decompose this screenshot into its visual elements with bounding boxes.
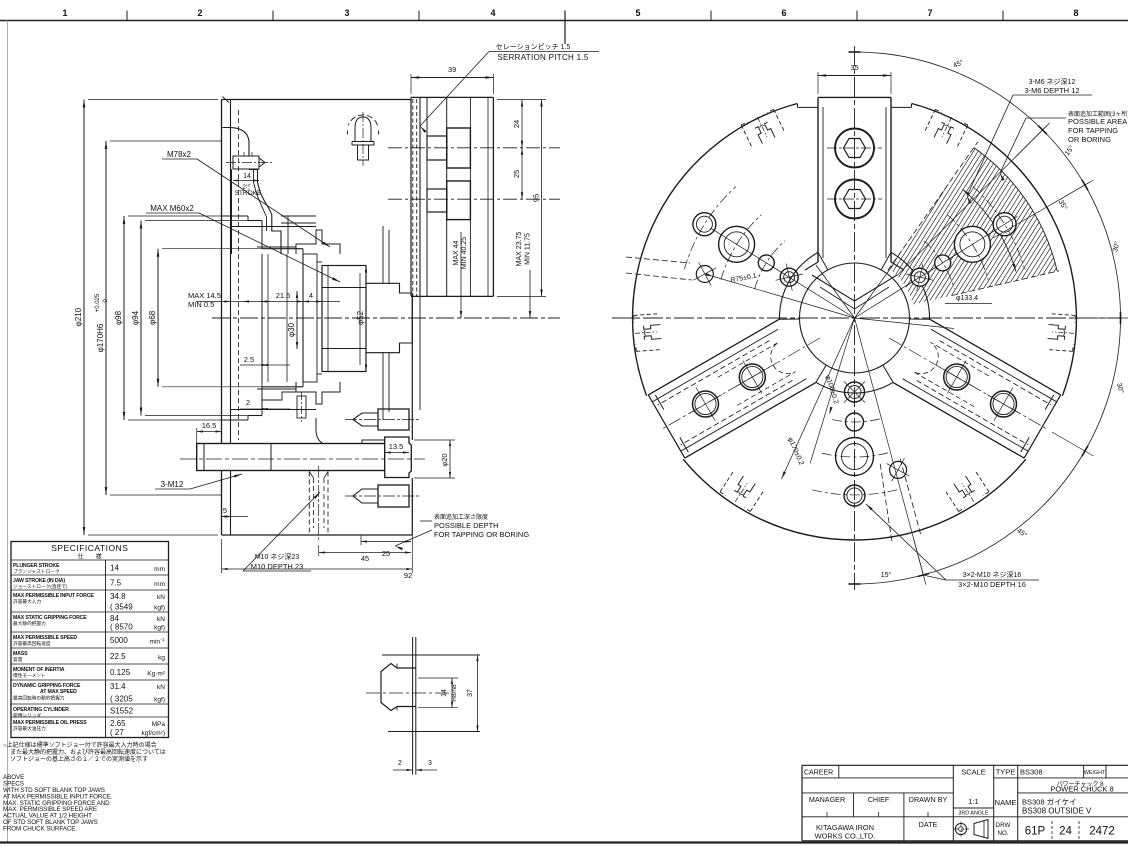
angle dimension arcs (right half): [855, 52, 1043, 130]
svg-text:POWER CHUCK 8: POWER CHUCK 8: [1050, 785, 1113, 794]
svg-text:DRW: DRW: [996, 822, 1011, 829]
svg-text:5: 5: [223, 506, 227, 515]
detail T-nut profile: [381, 664, 416, 711]
svg-text:M78x2: M78x2: [167, 150, 192, 159]
detail view top face line: [382, 654, 480, 656]
svg-text:3-M12: 3-M12: [161, 480, 184, 489]
stop key symbol upper-left rim: [741, 109, 785, 148]
svg-text:SPECIFICATIONS: SPECIFICATIONS: [51, 543, 128, 553]
dimension 25: [521, 148, 523, 199]
dimension 95: [497, 295, 546, 297]
stop key symbol right rim (way end): [1047, 314, 1075, 352]
stop key symbol lower-right rim: [945, 470, 989, 511]
section body: front flange profile: [222, 128, 249, 156]
center bore φ52 cylinder: [322, 266, 366, 372]
svg-text:95: 95: [532, 194, 541, 202]
svg-text:4: 4: [309, 291, 313, 300]
plunger back vertical: [231, 169, 233, 254]
svg-text:MAX 44: MAX 44: [453, 240, 460, 265]
svg-text:OR BORING: OR BORING: [1068, 135, 1111, 144]
mounting bolt 3-M12 (long bolt lower left): [197, 444, 385, 471]
detail view bottom face line: [388, 731, 480, 733]
svg-text:13.5: 13.5: [389, 442, 404, 451]
stop key symbol lower-left rim: [720, 470, 764, 511]
svg-text:S1552: S1552: [110, 707, 134, 716]
body front face verticals: [382, 226, 384, 283]
svg-text:慣性モーメント: 慣性モーメント: [13, 672, 46, 679]
third angle projection symbol: [955, 823, 966, 834]
svg-text:表面追加工深さ限度: 表面追加工深さ限度: [434, 513, 488, 521]
svg-text:AT MAX SPEED: AT MAX SPEED: [40, 689, 77, 695]
svg-text:NO.: NO.: [997, 830, 1008, 837]
svg-text:14: 14: [110, 564, 119, 573]
detail slot vertical lines: [412, 637, 414, 775]
svg-text:7: 7: [927, 8, 932, 18]
svg-text:MANAGER: MANAGER: [809, 795, 845, 804]
svg-text:STROKE: STROKE: [235, 190, 262, 197]
svg-text:φ94: φ94: [131, 310, 140, 325]
hub profile upper steps: [222, 215, 248, 217]
svg-text:BS308: BS308: [1020, 768, 1043, 777]
svg-text:3: 3: [428, 760, 432, 767]
svg-text:61P: 61P: [1025, 826, 1046, 838]
drawing frame top border line: [0, 20, 1128, 22]
svg-text:39: 39: [448, 65, 456, 74]
dimension φ98: [123, 216, 125, 420]
svg-text:MAX M60x2: MAX M60x2: [150, 204, 194, 213]
svg-text:mm: mm: [154, 566, 165, 573]
svg-text:3×2-M10 DEPTH 16: 3×2-M10 DEPTH 16: [958, 580, 1026, 589]
svg-text:24: 24: [1059, 826, 1072, 838]
jaw hex socket bolt upper: [835, 129, 874, 168]
svg-text:31.4: 31.4: [110, 682, 126, 691]
svg-text:φ133.4: φ133.4: [956, 295, 978, 302]
svg-text:3RD ANGLE: 3RD ANGLE: [958, 811, 989, 817]
svg-text:FROM CHUCK SURFACE.: FROM CHUCK SURFACE.: [3, 826, 77, 833]
bottom sheet border line: [0, 841, 1128, 843]
svg-text:POSSIBLE DEPTH: POSSIBLE DEPTH: [434, 521, 499, 530]
svg-text:FOR TAPPING: FOR TAPPING: [1068, 126, 1118, 135]
svg-text:JAW STROKE (IN DIA): JAW STROKE (IN DIA): [13, 578, 65, 584]
svg-text:M10 DEPTH 23: M10 DEPTH 23: [251, 562, 304, 571]
ruler zone numbers: [62, 8, 1078, 18]
dimension 37: [477, 655, 479, 732]
svg-text:2.65: 2.65: [110, 719, 126, 728]
svg-text:MIN 11.75: MIN 11.75: [525, 233, 532, 265]
svg-text:( 3205: ( 3205: [110, 695, 133, 704]
svg-text:3: 3: [344, 8, 349, 18]
svg-text:SCALE: SCALE: [961, 768, 986, 777]
svg-text:2: 2: [197, 8, 202, 18]
svg-text:CHIEF: CHIEF: [868, 795, 890, 804]
jaw guideway lower-right: [893, 382, 1024, 458]
right body outline (adaptor recess): [366, 283, 412, 293]
small hole at 163.6° with cross (R75 locating): [696, 266, 713, 283]
jaw hex socket bolt lower: [835, 180, 874, 219]
svg-text:kgf/cm²): kgf/cm²): [142, 730, 165, 737]
svg-text:14: 14: [243, 173, 251, 180]
svg-text:kN: kN: [157, 594, 165, 601]
svg-text:2: 2: [246, 398, 250, 407]
svg-text:15°: 15°: [881, 571, 892, 579]
svg-text:kg: kg: [158, 655, 165, 662]
svg-text:WORKS CO.,LTD.: WORKS CO.,LTD.: [815, 832, 876, 841]
jaw guideway lower-left: [648, 319, 779, 395]
dimension 35 (jaw width): [817, 72, 819, 94]
svg-text:( 8570: ( 8570: [110, 623, 133, 632]
svg-text:最高回転時の動的把握力: 最高回転時の動的把握力: [13, 695, 65, 702]
hatch wedge dimension arc 35°: [963, 189, 1017, 271]
jaw top ear tabs: [797, 104, 799, 108]
svg-text:MPa: MPa: [152, 721, 166, 728]
plunger nut block upper: [296, 230, 340, 254]
svg-text:BS308 OUTSIDE V: BS308 OUTSIDE V: [1022, 807, 1092, 816]
left sheet border: [7, 21, 9, 844]
svg-text:NAME: NAME: [995, 798, 1017, 807]
svg-text:7.5: 7.5: [110, 579, 122, 588]
svg-text:min: min: [150, 639, 161, 646]
detail centerline: [366, 692, 452, 694]
V-notch under top jaw: [805, 262, 904, 270]
svg-text:8: 8: [1073, 8, 1078, 18]
svg-text:5000: 5000: [110, 636, 128, 645]
jaw T-nut upper: [447, 128, 471, 168]
svg-text:H8/h8: H8/h8: [451, 684, 458, 702]
dimension φ170H6 +0.025/0: [105, 141, 107, 495]
dimension φ68: [157, 249, 159, 387]
jaw way shoulder lines (boss): [881, 252, 891, 270]
svg-text:使用シリンダ: 使用シリンダ: [13, 712, 41, 719]
boss arcs between jaw ways: [779, 252, 818, 319]
section body: top edge: [222, 99, 412, 101]
svg-text:φ210: φ210: [74, 307, 83, 326]
T-nut centerlines: [388, 147, 560, 149]
title block outline: [802, 764, 1128, 766]
plunger connection bolt (top, dashed dome): [348, 115, 377, 125]
master jaw top: column outlines: [817, 97, 819, 262]
bolt hole column bottom (270°): [845, 382, 865, 402]
svg-text:最大静的把握力: 最大静的把握力: [13, 620, 46, 627]
svg-text:TYPE: TYPE: [996, 768, 1016, 777]
svg-text:16.5: 16.5: [202, 421, 217, 430]
bolt circle dash-dot arcs: [755, 241, 785, 290]
svg-text:MAX PERMISSIBLE OIL PRESS: MAX PERMISSIBLE OIL PRESS: [13, 720, 87, 726]
jaw body outline: [0, 0, 1, 1]
jaw T-nut lower: [447, 181, 471, 220]
svg-text:45: 45: [361, 554, 369, 563]
svg-text:3-M6 DEPTH 12: 3-M6 DEPTH 12: [1024, 86, 1079, 95]
dimension φ30: [296, 291, 298, 349]
svg-text:4: 4: [490, 8, 495, 18]
dashed locating lines upper-left: [626, 257, 690, 263]
bolt hole group upper-left (148°): [780, 268, 798, 286]
svg-text:( 27: ( 27: [110, 728, 124, 737]
svg-text:Kg·m²: Kg·m²: [147, 671, 166, 678]
dimension φ52: [365, 266, 367, 372]
svg-text:FOR TAPPING OR BORING: FOR TAPPING OR BORING: [434, 530, 529, 539]
svg-text:kN: kN: [157, 684, 165, 691]
front flange lower profile: [316, 418, 389, 446]
chuck front face below jaw: [411, 296, 413, 440]
svg-text:21.5: 21.5: [276, 291, 291, 300]
svg-text:セレーションピッチ 1.5: セレーションピッチ 1.5: [496, 43, 571, 51]
svg-text:許容最大入力: 許容最大入力: [13, 598, 41, 605]
title block horizontals: [802, 777, 953, 779]
svg-text:14: 14: [441, 689, 448, 697]
svg-text:POSSIBLE AREA: POSSIBLE AREA: [1068, 117, 1127, 126]
stop key symbol left rim (way end): [634, 314, 662, 352]
small screw lower flange: [297, 396, 306, 418]
svg-text:2: 2: [398, 760, 402, 767]
svg-text:MASS: MASS: [13, 651, 28, 657]
svg-text:92: 92: [404, 571, 412, 580]
svg-text:( 3549: ( 3549: [110, 603, 133, 612]
radial construction lines through center: [710, 228, 854, 318]
svg-text:φ68: φ68: [148, 310, 157, 325]
chuck body outer circle: [633, 104, 798, 396]
svg-text:mm: mm: [154, 581, 165, 588]
svg-text:24: 24: [512, 120, 521, 128]
set screw upper (hex socket): [378, 409, 409, 430]
svg-text:5: 5: [635, 8, 640, 18]
dimension φ20: [414, 439, 455, 441]
svg-text:MAX PERMISSIBLE INPUT FORCE: MAX PERMISSIBLE INPUT FORCE: [13, 593, 94, 599]
hub cylinder verticals: [261, 254, 263, 382]
center convergence lines: [816, 265, 855, 318]
title block verticals: [952, 765, 954, 841]
svg-text:質量: 質量: [13, 656, 23, 663]
svg-text:MAX PERMISSIBLE SPEED: MAX PERMISSIBLE SPEED: [13, 635, 77, 641]
svg-text:1:1: 1:1: [968, 797, 978, 806]
svg-text:2.5: 2.5: [244, 355, 254, 364]
svg-text:34.8: 34.8: [110, 592, 126, 601]
svg-text:φ98: φ98: [114, 310, 123, 325]
svg-text:kgf): kgf): [154, 625, 165, 632]
serrated jaw assembly: serration plate dashed: [412, 99, 414, 296]
section body: back plate verticals: [221, 100, 223, 536]
svg-text:kgf): kgf): [154, 697, 165, 704]
stop key symbol upper-right rim: [924, 109, 968, 148]
svg-text:0.125: 0.125: [110, 668, 131, 677]
svg-text:ジョーストローク(直径で): ジョーストローク(直径で): [13, 583, 68, 590]
section view: horizontal centerline: [212, 317, 560, 319]
svg-text:6: 6: [781, 8, 786, 18]
svg-text:OPERATING CYLINDER: OPERATING CYLINDER: [13, 707, 69, 713]
dimension MAX 23.75 / MIN 11.75: [529, 270, 531, 318]
svg-text:3×2-M10 ネジ深16: 3×2-M10 ネジ深16: [963, 570, 1022, 579]
dimension 14 H8/h8: [418, 677, 458, 679]
svg-text:MAX STATIC GRIPPING FORCE: MAX STATIC GRIPPING FORCE: [13, 615, 87, 621]
svg-text:φ30: φ30: [287, 322, 296, 337]
specifications table frame: [11, 542, 169, 738]
svg-text:φ170H6: φ170H6: [96, 323, 105, 352]
svg-text:MAX 14.5: MAX 14.5: [188, 291, 221, 300]
svg-text:WEIGHT: WEIGHT: [1084, 770, 1106, 776]
bolt hole group upper-right (32°) white masks: [911, 268, 929, 286]
svg-text:2472: 2472: [1089, 826, 1115, 838]
dimension φ210: [83, 100, 85, 536]
master jaw slot horizontals: [231, 226, 317, 228]
svg-text:○上記仕様は標準ソフトジョー付で許容最大入力時の場合: ○上記仕様は標準ソフトジョー付で許容最大入力時の場合: [3, 741, 157, 749]
svg-text:M10 ネジ深23: M10 ネジ深23: [255, 552, 299, 561]
svg-text:仕 様: 仕 様: [78, 553, 102, 561]
ruler tick marks: [126, 11, 128, 21]
svg-text:許容最高回転速度: 許容最高回転速度: [13, 640, 51, 647]
svg-text:kN: kN: [157, 616, 165, 623]
dimension φ94: [140, 221, 142, 416]
radial line at 45° through hatch: [897, 126, 1047, 276]
hub profile lower steps: [222, 419, 248, 421]
bolt hole group upper-right (32°): [911, 268, 929, 286]
lower mirrored pocket: [296, 382, 340, 404]
M78 stud bolt on flange: [233, 156, 259, 169]
front view: vertical centerline: [854, 46, 856, 590]
small hole at -74° lower-right: [890, 461, 907, 478]
svg-text:37: 37: [467, 689, 474, 697]
section body: hidden bolt circle dashed line: [238, 110, 240, 440]
dimension 24: [497, 99, 546, 101]
flange pocket lines: [281, 215, 316, 217]
svg-text:MIN 40.25: MIN 40.25: [461, 237, 468, 269]
svg-text:ソフトジョーの基上高さの１／２での実測値を示す: ソフトジョーの基上高さの１／２での実測値を示す: [10, 755, 148, 763]
svg-text:DRAWN BY: DRAWN BY: [909, 795, 948, 804]
svg-text:φ20: φ20: [440, 453, 449, 466]
svg-text:SERRATION PITCH 1.5: SERRATION PITCH 1.5: [497, 53, 589, 62]
dimension MAX 44 / MIN 40.25: [460, 232, 462, 318]
svg-text:35: 35: [850, 63, 858, 72]
bore lines inside φ52 plug: [322, 287, 366, 289]
section body: bottom edge: [222, 534, 413, 536]
hidden tapped hole M10 (dashed): [308, 472, 310, 536]
wedge plunger internal block: [303, 254, 317, 382]
svg-text:1: 1: [62, 8, 67, 18]
svg-text:22.5: 22.5: [110, 652, 126, 661]
svg-text:+0.025: +0.025: [95, 293, 101, 312]
angle arc boundary ticks and extension lines: [1016, 123, 1050, 157]
svg-text:25: 25: [382, 549, 390, 558]
svg-text:PLUNGER STROKE: PLUNGER STROKE: [13, 563, 60, 569]
svg-text:φ52: φ52: [356, 310, 365, 325]
svg-text:kgf): kgf): [154, 605, 165, 612]
svg-text:25: 25: [512, 170, 521, 178]
svg-text:MAX 23.75: MAX 23.75: [516, 232, 523, 267]
svg-text:CAREER: CAREER: [804, 770, 833, 777]
svg-text:また最大静的把握力、および許容最高回転速度については: また最大静的把握力、および許容最高回転速度については: [10, 748, 166, 756]
hatch boundary dashed lines: [952, 271, 1059, 296]
svg-text:許容最大油圧力: 許容最大油圧力: [13, 725, 46, 732]
svg-text:-1: -1: [161, 637, 165, 642]
svg-text:3-M6 ネジ深12: 3-M6 ネジ深12: [1029, 77, 1076, 86]
svg-text:MOMENT OF INERTIA: MOMENT OF INERTIA: [13, 667, 65, 673]
central boss circle: [800, 263, 910, 373]
front view: horizontal centerline: [612, 317, 1122, 319]
dimension 39 (top of jaw): [410, 74, 412, 94]
set screw lower (hex socket): [378, 485, 409, 507]
dashed locating lines lower-right small hole: [900, 459, 920, 534]
svg-text:BS308 ガイケイ: BS308 ガイケイ: [1022, 797, 1076, 807]
svg-text:DATE: DATE: [919, 820, 938, 829]
